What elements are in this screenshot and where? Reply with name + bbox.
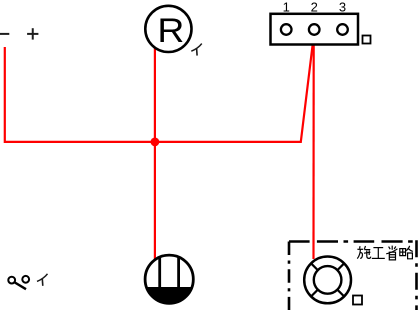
- svg-text:1: 1: [283, 0, 290, 15]
- terminal block pin 2: [309, 0, 320, 35]
- ceiling light (bottom centre): [145, 255, 193, 303]
- wire from terminal block pin 2 down to rosette (red): [312, 35, 314, 259]
- label 施工省略, kanji 省: [386, 246, 397, 260]
- switch イ (single-pole switch): [8, 276, 29, 289]
- svg-text:R: R: [157, 12, 184, 50]
- power source minus terminal: [0, 33, 9, 35]
- terminal block pin 3: [337, 0, 348, 35]
- terminal block pin 1: [281, 0, 292, 35]
- terminal block: [271, 14, 359, 45]
- ceiling rosette inside box: [304, 257, 351, 304]
- label 施工省略, kanji 略: [400, 246, 413, 259]
- label イ (circuit i) near switch: [37, 274, 48, 286]
- construction-omitted box, right edge: [415, 240, 418, 310]
- label イ (circuit i) near lamp receptacle: [191, 44, 202, 56]
- junction node: [151, 138, 160, 147]
- label 施工省略, kanji 工: [372, 248, 385, 259]
- power source plus terminal: [27, 28, 38, 39]
- svg-text:3: 3: [339, 0, 346, 15]
- wire vertical through lamp receptacle to ceiling light (red): [154, 47, 156, 259]
- rosette mounting square: [353, 296, 362, 305]
- terminal block mounting square: [363, 36, 371, 44]
- construction-omitted box (dash-dot), top edge: [289, 240, 417, 243]
- construction-omitted box, left edge: [288, 242, 291, 310]
- svg-text:2: 2: [311, 0, 318, 15]
- label 施工省略 (construction omitted), kanji 施: [357, 246, 370, 259]
- lamp receptacle R: [145, 6, 191, 52]
- wire from source to bus and to terminal block pin 2 (red): [5, 36, 314, 142]
